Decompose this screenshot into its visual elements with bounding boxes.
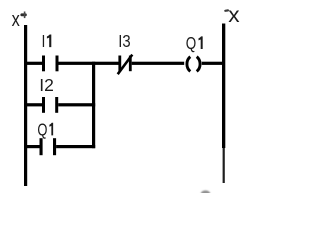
wire: left rail to contact I1	[25, 62, 43, 65]
wire: I3 to coil Q1	[132, 62, 185, 65]
wire: Q1 contact to branch	[56, 145, 95, 148]
wire: left rail to contact I2	[25, 103, 43, 106]
svg-text:I: I	[42, 33, 46, 52]
artifact: cut-off glyph at bottom edge	[201, 190, 211, 197]
label x+ (left rail name)	[12, 7, 27, 30]
wire: coil to right rail	[202, 62, 223, 65]
svg-text:I3: I3	[118, 32, 130, 51]
contact Q1 (normally open)	[40, 138, 57, 155]
label Q1 (contact)	[37, 121, 53, 140]
contact I1 (normally open)	[42, 56, 59, 72]
label -x (right rail name)	[224, 3, 240, 27]
label I1	[42, 33, 52, 52]
coil Q1	[187, 57, 200, 72]
svg-text:x: x	[228, 3, 239, 27]
svg-text:x: x	[12, 7, 20, 30]
wire: I2 to branch	[58, 103, 95, 106]
label Q1 (coil)	[186, 34, 203, 53]
right power rail	[222, 24, 225, 184]
svg-text:Q: Q	[186, 34, 196, 53]
left power rail	[24, 25, 27, 186]
svg-text:Q: Q	[37, 121, 47, 140]
wire: left rail to contact Q1	[25, 145, 40, 148]
contact I3 (normally closed)	[118, 55, 133, 75]
svg-text:I2: I2	[39, 75, 54, 95]
wire: parallel branch vertical	[92, 62, 95, 149]
contact I2 (normally open)	[42, 97, 58, 113]
wire: I1 to I3 through branch junction	[59, 62, 119, 65]
